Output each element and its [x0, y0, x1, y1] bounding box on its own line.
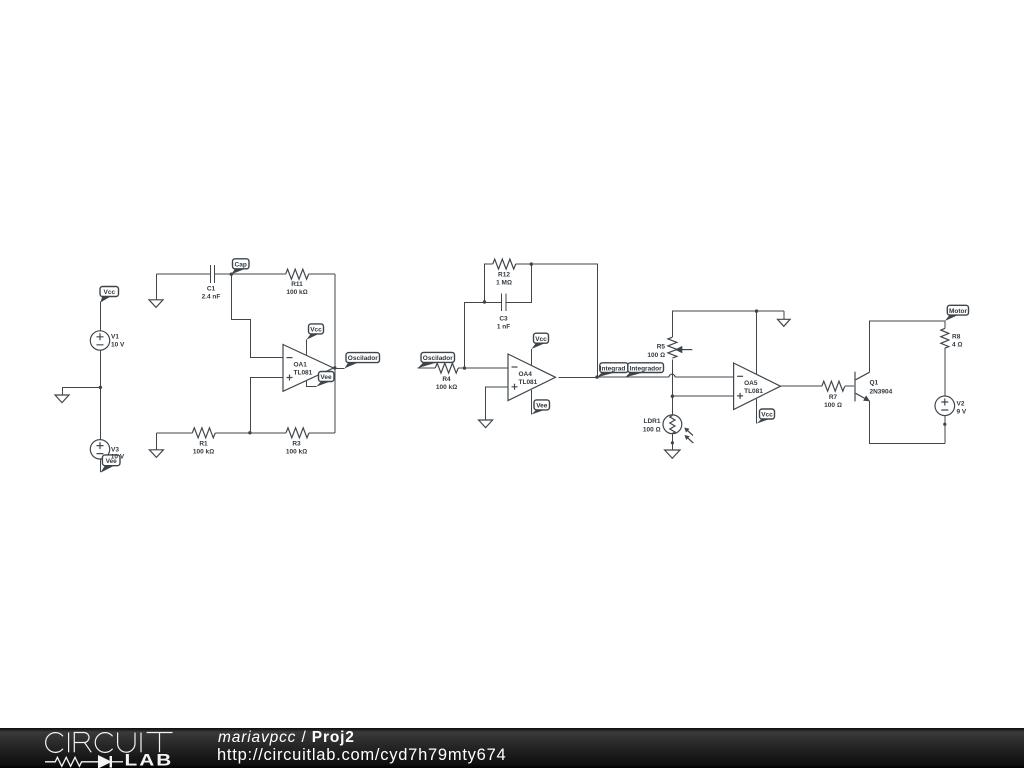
svg-text:10 V: 10 V: [111, 453, 125, 460]
svg-text:LDR1: LDR1: [644, 418, 661, 425]
node OA1 output junction: [333, 366, 336, 369]
capacitor C3: [497, 293, 510, 330]
svg-text:OA5: OA5: [744, 380, 758, 387]
node V1/V3/ground junction: [99, 386, 102, 389]
svg-text:2.4 nF: 2.4 nF: [202, 294, 221, 301]
svg-text:Q1: Q1: [870, 380, 879, 387]
wire top rail (pot top / OA5 V+ / ground): [672, 310, 784, 312]
resistor R4: [418, 363, 465, 391]
wire C3 right to top node: [506, 264, 532, 302]
node OA4 output junction: [595, 375, 598, 378]
net flag Cap: [231, 259, 249, 274]
node R1/R3 junction: [248, 431, 251, 434]
svg-text:1 MΩ: 1 MΩ: [496, 280, 512, 287]
logo CIRCUIT wordmark: [46, 733, 173, 753]
wire ground to C1: [156, 273, 209, 275]
net flag Vcc (OA1): [306, 324, 323, 340]
svg-text:Integrador: Integrador: [630, 365, 663, 372]
svg-text:R4: R4: [442, 376, 451, 383]
wire feedback Cap to inverting input: [231, 274, 283, 357]
svg-text:OA1: OA1: [294, 362, 308, 369]
wire R4 node to OA4 inverting input: [465, 367, 509, 369]
net flag Integrador 2: [600, 363, 664, 378]
wire OA1 V- pin: [306, 381, 316, 387]
node LDR bottom pin: [671, 441, 674, 444]
wire OA4 V+ pin: [530, 349, 532, 365]
wire junction to V3: [99, 387, 101, 439]
potentiometer R5: [647, 311, 692, 368]
node top rail junction: [755, 309, 758, 312]
resistor R8: [941, 321, 963, 396]
wire junction to ground: [62, 387, 100, 395]
node R4/feedback junction: [463, 366, 466, 369]
wire + node to OA5 non-inverting input: [672, 395, 733, 397]
svg-text:V1: V1: [111, 334, 119, 341]
svg-text:Vcc: Vcc: [761, 412, 773, 419]
svg-text:1 nF: 1 nF: [497, 324, 510, 331]
wire right vertical (R11/out/R3): [334, 274, 336, 433]
ground (R1 input): [149, 433, 163, 458]
svg-text:R3: R3: [292, 441, 301, 448]
voltage source V3: [90, 440, 109, 459]
svg-text:R1: R1: [199, 441, 208, 448]
svg-text:2N3904: 2N3904: [870, 389, 893, 396]
wire R12 left branch: [485, 264, 493, 302]
net flag Vee (OA4): [531, 400, 549, 415]
svg-text:OA4: OA4: [519, 371, 533, 378]
svg-text:TL081: TL081: [294, 370, 313, 377]
svg-text:TL081: TL081: [519, 379, 538, 386]
svg-text:Oscilador: Oscilador: [348, 355, 378, 362]
svg-text:Vcc: Vcc: [310, 327, 322, 334]
svg-text:R7: R7: [829, 394, 838, 401]
net flag Vcc (top of V1): [100, 287, 119, 303]
wire Integrador net (OA4 out to OA5 -, with hop): [559, 376, 734, 378]
resistor R7: [781, 381, 855, 409]
node V2 bottom pin: [943, 423, 946, 426]
ground (LDR): [665, 450, 680, 458]
svg-text:9 V: 9 V: [957, 409, 967, 416]
svg-text:Motor: Motor: [949, 308, 968, 315]
svg-text:100 kΩ: 100 kΩ: [286, 449, 307, 456]
svg-text:R11: R11: [291, 281, 303, 288]
url line: [217, 747, 506, 764]
wire V3 to Vee flag: [99, 459, 101, 472]
wire C1 to Cap node: [215, 273, 232, 275]
node R12/C3 left junction: [483, 300, 486, 303]
svg-text:Integrad: Integrad: [600, 365, 626, 372]
net flag Integrador 1: [597, 363, 628, 378]
svg-text:100 kΩ: 100 kΩ: [286, 289, 307, 296]
svg-text:TL081: TL081: [744, 388, 763, 395]
logo resistor-diode symbol: [45, 756, 123, 768]
svg-text:Vcc: Vcc: [104, 289, 116, 296]
svg-text:Oscilador: Oscilador: [423, 355, 453, 362]
wire hop over pot: [669, 374, 675, 377]
wire Q1 emitter down and right: [869, 401, 945, 444]
wire pot bottom through hop to + node: [671, 368, 673, 396]
node pot/LDR/+input junction: [671, 395, 674, 398]
wire OA1 output stub: [334, 367, 345, 369]
svg-text:4 Ω: 4 Ω: [952, 342, 962, 349]
svg-text:R12: R12: [498, 272, 510, 279]
resistor R3: [250, 428, 335, 456]
net flag Oscilador (R4 input): [418, 352, 455, 368]
wire junction to non-inverting input: [250, 378, 283, 433]
svg-text:C1: C1: [207, 286, 216, 293]
wire V2 bottom: [944, 416, 946, 444]
wire Vcc to V1: [99, 302, 101, 332]
photoresistor LDR1: [643, 415, 693, 443]
author line: [218, 730, 355, 746]
svg-text:100 kΩ: 100 kΩ: [193, 449, 214, 456]
wire OA4 + input to ground: [485, 387, 508, 420]
voltage source V2: [935, 396, 967, 416]
svg-text:LAB: LAB: [125, 751, 174, 768]
wire OA1 V+ pin: [305, 340, 307, 356]
svg-text:V3: V3: [111, 446, 119, 453]
ground (top rail): [778, 311, 791, 326]
wire OA5 V- pin: [756, 399, 758, 424]
net flag Vcc (OA5): [757, 409, 775, 424]
node R12/C3 right junction: [530, 262, 533, 265]
svg-text:R5: R5: [657, 343, 666, 350]
resistor R11: [231, 269, 334, 296]
op-amp OA5: [734, 363, 781, 410]
svg-text:C3: C3: [499, 316, 508, 323]
wire OA4 V- pin: [530, 390, 532, 415]
svg-text:100 Ω: 100 Ω: [647, 352, 665, 359]
net flag Oscilador (OA1 output): [345, 353, 380, 369]
wire LDR bottom: [671, 434, 673, 450]
svg-text:R8: R8: [952, 334, 961, 341]
net flag Vee (bottom of V3): [100, 455, 120, 473]
wire feedback top to OA4 output: [531, 264, 597, 377]
node Cap junction: [230, 273, 233, 276]
net flag Motor: [945, 305, 969, 321]
svg-text:100 Ω: 100 Ω: [824, 402, 842, 409]
wire OA5 V+ pin: [756, 311, 758, 374]
resistor R12: [493, 259, 532, 286]
ground (OA4 +): [479, 420, 493, 428]
wire Q1 collector up and right: [869, 321, 945, 372]
svg-text:100 Ω: 100 Ω: [643, 426, 661, 433]
svg-text:Vee: Vee: [536, 403, 548, 410]
net flag Vcc (OA4): [531, 333, 548, 349]
V3 labels: [111, 446, 125, 460]
svg-text:Cap: Cap: [235, 261, 247, 268]
voltage source V1: [90, 331, 125, 350]
op-amp OA1: [283, 345, 334, 392]
svg-text:100 kΩ: 100 kΩ: [436, 384, 457, 391]
wire V1 to junction: [99, 350, 101, 387]
ground (C1 input): [149, 274, 163, 307]
ground (left rail): [55, 395, 69, 403]
wire feedback left vertical: [465, 302, 502, 368]
op-amp OA4: [508, 354, 556, 401]
transistor Q1: [855, 372, 893, 402]
resistor R1: [156, 428, 250, 456]
svg-text:Vcc: Vcc: [535, 336, 547, 343]
svg-text:Vee: Vee: [320, 374, 332, 381]
wire LDR top: [671, 396, 673, 415]
svg-text:10 V: 10 V: [111, 342, 125, 349]
net flag Vee (OA1): [316, 372, 334, 387]
svg-text:V2: V2: [957, 401, 965, 408]
capacitor C1: [202, 265, 221, 301]
